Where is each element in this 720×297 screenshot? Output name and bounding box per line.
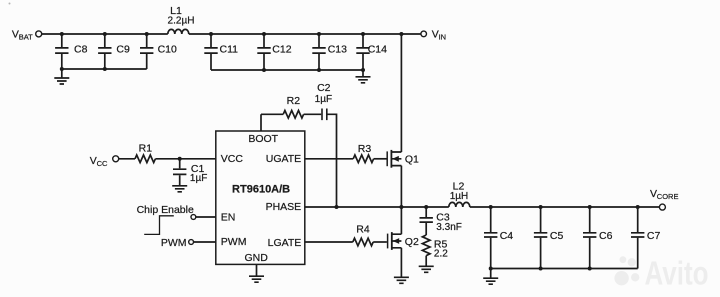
- svg-text:CC: CC: [97, 159, 108, 168]
- svg-text:1µF: 1µF: [190, 173, 207, 184]
- svg-text:UGATE: UGATE: [266, 153, 301, 165]
- svg-text:C4: C4: [500, 230, 514, 242]
- svg-text:VCC: VCC: [221, 153, 244, 165]
- svg-text:C14: C14: [368, 44, 387, 56]
- svg-text:Chip Enable: Chip Enable: [137, 204, 194, 216]
- svg-text:C7: C7: [647, 230, 661, 242]
- svg-text:2.2: 2.2: [434, 249, 448, 260]
- svg-text:3.3nF: 3.3nF: [436, 222, 462, 233]
- svg-text:R4: R4: [356, 224, 370, 236]
- svg-text:1µF: 1µF: [315, 94, 332, 105]
- svg-text:C10: C10: [158, 44, 177, 56]
- svg-text:PWM: PWM: [221, 236, 247, 248]
- svg-text:CORE: CORE: [657, 192, 679, 201]
- svg-text:R3: R3: [358, 143, 372, 155]
- svg-text:GND: GND: [245, 252, 269, 264]
- svg-text:IN: IN: [439, 32, 447, 41]
- svg-text:R2: R2: [287, 95, 301, 107]
- svg-text:BAT: BAT: [19, 32, 33, 41]
- svg-text:C8: C8: [74, 44, 88, 56]
- svg-text:2.2µH: 2.2µH: [168, 15, 195, 26]
- svg-text:C5: C5: [550, 230, 564, 242]
- svg-text:EN: EN: [221, 212, 236, 224]
- svg-text:C13: C13: [328, 44, 347, 56]
- svg-text:Avito: Avito: [645, 255, 709, 292]
- svg-text:RT9610A/B: RT9610A/B: [232, 183, 290, 195]
- svg-text:C6: C6: [599, 230, 613, 242]
- svg-text:C2: C2: [317, 82, 331, 94]
- svg-text:C9: C9: [116, 44, 130, 56]
- svg-text:PWM: PWM: [161, 237, 187, 249]
- svg-text:C11: C11: [220, 44, 239, 56]
- svg-text:PHASE: PHASE: [266, 201, 302, 213]
- svg-text:C12: C12: [272, 44, 291, 56]
- svg-text:Q2: Q2: [405, 236, 419, 248]
- svg-text:Q1: Q1: [405, 154, 419, 166]
- svg-text:R1: R1: [139, 142, 153, 154]
- svg-text:BOOT: BOOT: [248, 133, 278, 145]
- svg-text:1µH: 1µH: [450, 191, 469, 202]
- svg-text:LGATE: LGATE: [268, 237, 302, 249]
